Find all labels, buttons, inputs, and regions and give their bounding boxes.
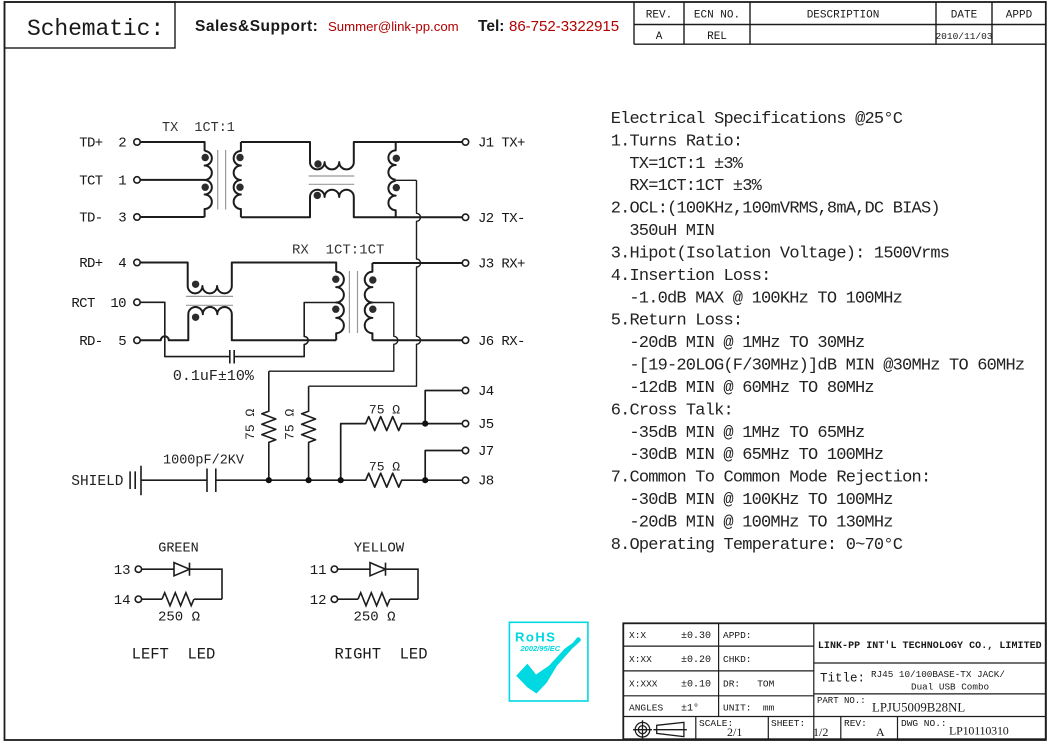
dot T2 secondary top	[369, 276, 376, 283]
transformer core T2	[349, 271, 357, 333]
wire J6 rail	[372, 339, 462, 341]
svg-text:APPD: APPD	[1006, 10, 1033, 22]
resistor R2 75ohm vertical	[302, 386, 316, 480]
pin circles left	[134, 139, 469, 484]
dot T3 bottom	[393, 184, 400, 191]
RoHS logo	[509, 622, 588, 701]
svg-text:RoHS: RoHS	[515, 630, 556, 645]
svg-text:75 Ω: 75 Ω	[369, 403, 400, 418]
svg-text:Electrical Specifications @25°: Electrical Specifications @25°C	[611, 110, 903, 129]
wire R6 to loop	[390, 598, 418, 600]
svg-text:TX 1CT:1: TX 1CT:1	[162, 121, 235, 136]
svg-text:7.Common To Common Mode Reject: 7.Common To Common Mode Rejection:	[611, 469, 931, 488]
diode D1 green	[174, 563, 190, 576]
LED labels	[114, 541, 428, 664]
pin TD+ 2	[134, 139, 140, 145]
svg-text:ANGLES: ANGLES	[629, 703, 664, 714]
svg-text:J6 RX-: J6 RX-	[478, 334, 525, 350]
svg-text:TD- 3: TD- 3	[79, 211, 126, 227]
svg-text:4.Insertion Loss:: 4.Insertion Loss:	[611, 267, 771, 286]
svg-text:CHKD:: CHKD:	[723, 654, 752, 665]
svg-text:GREEN: GREEN	[158, 542, 199, 557]
svg-text:J4: J4	[478, 384, 494, 400]
svg-text:Summer@link-pp.com: Summer@link-pp.com	[328, 19, 459, 34]
svg-text:RIGHT LED: RIGHT LED	[334, 646, 427, 664]
svg-text:0.1uF±10%: 0.1uF±10%	[173, 368, 255, 385]
svg-text:RJ45 10/100BASE-TX JACK/: RJ45 10/100BASE-TX JACK/	[871, 669, 1005, 680]
svg-text:REV:: REV:	[844, 718, 867, 729]
svg-text:5.Return Loss:: 5.Return Loss:	[611, 312, 743, 331]
svg-text:YELLOW: YELLOW	[354, 541, 405, 557]
svg-text:J1 TX+: J1 TX+	[478, 136, 525, 152]
pin labels left	[71, 136, 126, 350]
choke core L1	[309, 176, 355, 184]
wire shield to cap C2	[141, 479, 207, 481]
autotransformer T3 winding across J1 J2	[388, 142, 395, 217]
wire C1 to T2 primary center tap with hop	[234, 303, 336, 357]
svg-text:-1.0dB MAX @ 100KHz TO 100MHz: -1.0dB MAX @ 100KHz TO 100MHz	[629, 289, 902, 308]
svg-text:ECN NO.: ECN NO.	[694, 10, 740, 22]
dot T1 primary top	[202, 154, 209, 161]
svg-text:75 Ω: 75 Ω	[283, 409, 298, 440]
svg-text:REL: REL	[707, 31, 727, 43]
transformer T1 secondary winding	[234, 142, 241, 217]
svg-text:RX 1CT:1CT: RX 1CT:1CT	[292, 243, 384, 259]
dot L2 top	[192, 281, 199, 288]
dot L1 bottom	[314, 192, 321, 199]
revision table	[634, 2, 1046, 44]
dot T1 primary bottom	[202, 184, 209, 191]
wire R5 to loop	[194, 598, 222, 600]
pin TCT 1	[134, 177, 140, 183]
dot T3 top	[393, 155, 400, 162]
svg-text:DESCRIPTION: DESCRIPTION	[807, 10, 880, 22]
svg-text:1.Turns Ratio:: 1.Turns Ratio:	[611, 132, 743, 151]
svg-text:86-752-3322915: 86-752-3322915	[509, 18, 619, 35]
wire pin14 to resistor R5	[142, 598, 162, 600]
svg-text:LINK-PP INT'L TECHNOLOGY CO.,: LINK-PP INT'L TECHNOLOGY CO., LIMITED	[818, 640, 1042, 652]
dot L2 bottom	[192, 314, 199, 321]
CIRCUIT	[130, 142, 462, 495]
svg-text:J7: J7	[478, 444, 494, 460]
capacitor C2 1000pF plates	[207, 469, 216, 493]
svg-text:Dual USB Combo: Dual USB Combo	[911, 682, 989, 693]
svg-text:SHIELD: SHIELD	[71, 474, 123, 490]
pin 12	[331, 596, 337, 602]
svg-text:APPD:: APPD:	[723, 630, 752, 641]
LED RIGHT circuit	[331, 563, 418, 606]
junction dots	[266, 421, 429, 484]
pin J8	[462, 477, 468, 483]
svg-text:LPJU5009B28NL: LPJU5009B28NL	[872, 701, 965, 715]
dot L1 top	[314, 160, 321, 167]
svg-text:75 Ω: 75 Ω	[369, 459, 400, 474]
svg-text:J3 RX+: J3 RX+	[478, 257, 525, 273]
wire diode to loop	[190, 569, 223, 599]
J labels	[478, 136, 525, 490]
svg-text:Title:: Title:	[820, 672, 865, 686]
dot T2 primary bottom	[332, 306, 339, 313]
wire pin12 to resistor R6	[338, 598, 358, 600]
svg-text:RD- 5: RD- 5	[79, 334, 126, 350]
svg-text:X:XXX: X:XXX	[629, 679, 658, 690]
pin RD+ 4	[134, 259, 140, 265]
svg-text:Sales&Support:: Sales&Support:	[195, 18, 318, 35]
junction J7 J8	[422, 477, 428, 483]
resistor R5 250ohm	[162, 593, 194, 606]
pin J7	[462, 447, 468, 453]
wire TX center-tap vertical with hops	[309, 180, 421, 386]
svg-text:2002/95/EC: 2002/95/EC	[520, 644, 561, 653]
dot T2 secondary bottom	[369, 306, 376, 313]
junction J4 J5	[422, 421, 428, 427]
svg-text:TX=1CT:1 ±3%: TX=1CT:1 ±3%	[629, 155, 743, 174]
svg-text:2.OCL:(100KHz,100mVRMS,8mA,DC: 2.OCL:(100KHz,100mVRMS,8mA,DC BIAS)	[611, 200, 940, 219]
wire pin13 to diode D1	[142, 568, 174, 570]
svg-text:TD+ 2: TD+ 2	[79, 136, 126, 152]
svg-text:250 Ω: 250 Ω	[353, 610, 395, 626]
svg-text:UNIT: mm: UNIT: mm	[723, 703, 775, 714]
junction R1 shield rail	[266, 477, 272, 483]
svg-text:14: 14	[114, 593, 131, 609]
dot T2 primary top	[332, 276, 339, 283]
svg-text:±0.10: ±0.10	[681, 680, 711, 691]
pin J2	[462, 214, 468, 220]
transformer T1 primary winding	[205, 151, 212, 217]
svg-text:X:XX: X:XX	[629, 654, 652, 665]
svg-text:Tel:: Tel:	[478, 18, 504, 35]
shield symbol	[130, 466, 141, 496]
resistor R6 250ohm	[358, 593, 390, 606]
svg-text:TCT 1: TCT 1	[79, 173, 126, 189]
svg-text:12: 12	[310, 593, 327, 609]
pin RCT 10	[134, 299, 140, 305]
svg-text:±1°: ±1°	[681, 703, 699, 715]
wire RX center-tap vertical with hop to R1	[269, 303, 398, 372]
wire T2 secondary center tap	[372, 302, 393, 304]
svg-text:-30dB MIN @ 65MHz TO 100MHz: -30dB MIN @ 65MHz TO 100MHz	[629, 446, 883, 465]
svg-text:DWG NO.:: DWG NO.:	[901, 718, 947, 729]
svg-text:-[19-20LOG(F/30MHz)]dB MIN @30: -[19-20LOG(F/30MHz)]dB MIN @30MHz TO 60M…	[629, 357, 1024, 376]
wire J3 rail	[372, 262, 462, 264]
svg-text:13: 13	[114, 563, 131, 579]
svg-text:RD+ 4: RD+ 4	[79, 256, 126, 272]
svg-text:3.Hipot(Isolation Voltage): 15: 3.Hipot(Isolation Voltage): 1500Vrms	[611, 245, 949, 264]
wire J5 branch with resistor R3	[341, 417, 463, 481]
pin J4	[462, 387, 468, 393]
svg-text:REV.: REV.	[646, 10, 672, 22]
wire TD- pin to T1 primary bottom	[140, 216, 204, 218]
svg-text:PART NO.:: PART NO.:	[817, 696, 866, 706]
pin 11	[331, 566, 337, 572]
svg-text:1000pF/2KV: 1000pF/2KV	[163, 453, 245, 468]
svg-text:75 Ω: 75 Ω	[243, 409, 258, 440]
svg-text:2/1: 2/1	[727, 725, 742, 739]
wire J1 rail with choke L1 top winding	[241, 142, 462, 169]
SPEC TEXT BLOCK	[611, 110, 1025, 555]
wire pin11 to diode D2	[338, 568, 370, 570]
revision table header texts	[646, 10, 1033, 44]
svg-text:-30dB MIN @ 100KHz TO 100MHz: -30dB MIN @ 100KHz TO 100MHz	[629, 491, 892, 510]
pin J3	[462, 260, 468, 266]
transformer T2 secondary winding	[365, 263, 373, 340]
projection symbol	[633, 720, 687, 739]
svg-text:LP10110310: LP10110310	[949, 724, 1009, 738]
wire RD+ pin through choke L2 top to T2 primary	[140, 263, 336, 294]
svg-text:8.Operating Temperature: 0~70°: 8.Operating Temperature: 0~70°C	[611, 536, 903, 555]
LED LEFT circuit	[135, 563, 222, 606]
pin J5	[462, 420, 468, 426]
svg-text:250 Ω: 250 Ω	[158, 610, 200, 626]
wire diode to loop	[386, 569, 419, 599]
svg-text:DATE: DATE	[951, 10, 978, 22]
title block small texts	[629, 630, 947, 729]
pin 13	[135, 566, 141, 572]
dot T1 secondary top	[236, 154, 243, 161]
wire J7 branch	[425, 451, 462, 481]
pin J1	[462, 139, 468, 145]
pin TD- 3	[134, 214, 140, 220]
svg-text:X:X: X:X	[629, 630, 646, 641]
wire J2 rail with choke L1 bottom winding	[241, 190, 462, 218]
pin RD- 5	[134, 337, 140, 343]
transformer T2 primary winding	[336, 272, 344, 341]
wire J4 branch	[425, 391, 462, 424]
svg-text:RX=1CT:1CT ±3%: RX=1CT:1CT ±3%	[629, 177, 762, 196]
title box "Schematic:"	[5, 2, 176, 48]
svg-text:350uH MIN: 350uH MIN	[629, 222, 714, 241]
transformer core T1	[218, 150, 226, 210]
pin 14	[135, 596, 141, 602]
capacitor C1 0.1uF plates	[230, 350, 234, 364]
svg-text:±0.20: ±0.20	[681, 655, 711, 666]
svg-text:Schematic:: Schematic:	[27, 16, 164, 42]
svg-text:LEFT LED: LEFT LED	[132, 646, 216, 664]
wire RD- pin with hop through choke L2 bottom to T2 primary bottom	[140, 307, 336, 340]
pin J6	[462, 337, 468, 343]
svg-text:A: A	[876, 725, 885, 739]
wire TD+ pin to T1 primary top	[140, 142, 204, 151]
svg-text:J8: J8	[478, 474, 494, 490]
svg-text:-12dB MIN @ 60MHz TO 80MHz: -12dB MIN @ 60MHz TO 80MHz	[629, 379, 873, 398]
junction R2 shield rail	[306, 477, 312, 483]
polarity dots	[192, 154, 400, 321]
choke core L2	[186, 296, 233, 305]
svg-text:J5: J5	[478, 417, 494, 433]
svg-text:11: 11	[310, 563, 327, 579]
junction J5 branch shield rail	[338, 477, 344, 483]
svg-text:RCT 10: RCT 10	[71, 296, 126, 312]
wire RCT pin to coupling cap C1	[140, 302, 230, 356]
wire shield rail with resistor R4 to J8	[216, 473, 462, 487]
svg-text:-20dB MIN @ 100MHz TO 130MHz: -20dB MIN @ 100MHz TO 130MHz	[629, 514, 892, 533]
resistor R1 75ohm vertical	[262, 371, 276, 480]
svg-text:-35dB MIN @ 1MHz TO 65MHz: -35dB MIN @ 1MHz TO 65MHz	[629, 424, 864, 443]
svg-text:SHEET:: SHEET:	[771, 718, 805, 729]
wire TCT pin to T1 primary center tap	[140, 179, 204, 181]
svg-text:2010/11/03: 2010/11/03	[935, 31, 992, 42]
wire T3 center tap	[396, 179, 417, 181]
svg-text:A: A	[656, 31, 663, 43]
svg-text:-20dB MIN @ 1MHz TO 30MHz: -20dB MIN @ 1MHz TO 30MHz	[629, 334, 864, 353]
TITLE BLOCK	[623, 623, 1046, 739]
diode D2 yellow	[370, 563, 386, 576]
svg-text:±0.30: ±0.30	[681, 631, 711, 642]
svg-text:6.Cross Talk:: 6.Cross Talk:	[611, 401, 733, 420]
svg-text:J2 TX-: J2 TX-	[478, 211, 525, 227]
svg-text:1/2: 1/2	[813, 725, 828, 739]
svg-text:DR: TOM: DR: TOM	[723, 679, 775, 690]
dot T1 secondary bottom	[236, 184, 243, 191]
